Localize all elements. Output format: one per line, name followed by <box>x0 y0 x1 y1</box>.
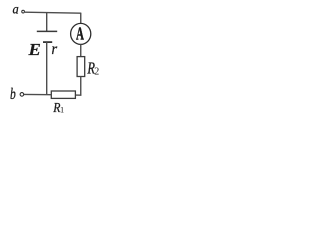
wire R2 to bottom rail <box>80 77 82 96</box>
wire battery branch bottom <box>46 42 48 95</box>
svg-text:A: A <box>76 23 84 43</box>
terminal b <box>20 93 24 97</box>
wire top rail <box>25 12 81 13</box>
svg-text:2: 2 <box>94 67 99 78</box>
wire bottom rail left segment <box>24 93 52 95</box>
svg-text:r: r <box>51 41 58 58</box>
svg-text:b: b <box>10 86 16 103</box>
wire right drop to ammeter <box>80 13 82 24</box>
wire battery branch top <box>46 13 48 32</box>
svg-text:1: 1 <box>60 105 64 114</box>
wire bottom rail right segment <box>75 94 81 96</box>
svg-text:a: a <box>13 3 19 18</box>
battery long plate <box>37 30 57 32</box>
resistor R2 <box>77 57 85 77</box>
wire ammeter to R2 <box>80 44 82 56</box>
terminal a <box>22 10 25 13</box>
resistor R1 <box>51 91 75 98</box>
ammeter A1 <box>71 23 91 44</box>
svg-text:E: E <box>27 40 41 59</box>
battery short plate <box>43 41 52 43</box>
